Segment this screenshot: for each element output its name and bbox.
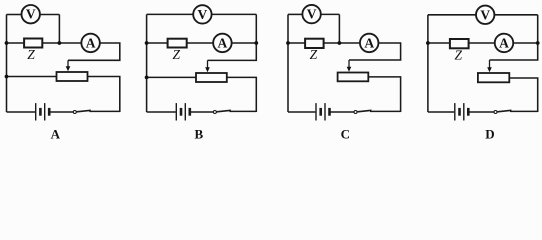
battery GB (D) (455, 103, 469, 120)
voltmeter V (C) (302, 5, 320, 23)
wire: battery to switch (D) (469, 111, 494, 113)
svg-text:A: A (499, 35, 509, 50)
wire: battery to switch (B) (191, 111, 214, 113)
wire: left vertical rail (D) (427, 15, 429, 112)
svg-text:C: C (341, 126, 350, 141)
junction node left-rheostat (B) (145, 76, 149, 80)
junction node left-row2 (A) (5, 41, 9, 45)
wire: bottom rail left segment (B) (147, 111, 176, 113)
junction node right-row2 (B) (254, 41, 258, 45)
wire: right vertical continues to ammeter-return (B) (208, 43, 257, 60)
junction node left-rheostat (A) (5, 75, 9, 79)
svg-text:A: A (364, 35, 374, 50)
resistor Z (B) (168, 39, 187, 62)
ammeter A (C) (360, 34, 379, 53)
junction node Z-ammeter (A) (58, 41, 62, 45)
wire: Z right lead (B) (187, 42, 213, 44)
wire: left vertical rail (A) (6, 15, 8, 113)
battery GB (A) (36, 103, 50, 120)
wire: bottom rail left segment (C) (288, 111, 315, 113)
battery GB (B) (176, 103, 190, 120)
wire: switch to bottom right corner (B) (229, 110, 256, 112)
junction node left-row2 (D) (426, 41, 430, 45)
wire: bottom rail left segment (D) (428, 111, 454, 113)
wire: ammeter right lead to node (D) (513, 42, 537, 44)
wire: rheostat right end to right rail down (D) (509, 78, 537, 112)
svg-text:Z: Z (27, 47, 35, 62)
wire: left rail to rheostat left end (B) (147, 76, 196, 78)
svg-text:V: V (307, 7, 317, 22)
junction node right-row2 (D) (536, 41, 540, 45)
wire: left vertical rail (B) (146, 14, 148, 112)
resistor Z (C) (305, 39, 324, 62)
ammeter A (D) (495, 34, 514, 53)
switch S (C) (354, 110, 372, 113)
wire: switch to bottom right corner (A) (89, 110, 120, 112)
wire: top rail left segment (C) (288, 13, 302, 15)
svg-text:V: V (480, 7, 490, 22)
wire: V-loop right vertical down to node (A) (58, 15, 60, 44)
rheostat R (A) slider arrow (66, 60, 71, 71)
wire: top rail right segment (A) (40, 14, 60, 16)
ammeter A (B) (213, 34, 232, 53)
wire: V-loop right vertical down to node (D) (537, 15, 539, 43)
svg-text:D: D (485, 126, 494, 141)
wire: switch to bottom right corner (C) (370, 110, 401, 112)
switch S (B) (213, 110, 231, 113)
wire: V-loop right vertical down to node (B) (255, 14, 257, 43)
svg-text:A: A (86, 35, 96, 50)
svg-text:A: A (51, 126, 61, 141)
wire: switch to bottom right corner (D) (510, 110, 538, 112)
ammeter A (A) (81, 34, 100, 53)
wire: node to resistor Z left lead (B) (147, 42, 168, 44)
junction node Z-ammeter (C) (338, 41, 342, 45)
svg-text:Z: Z (454, 48, 462, 63)
voltmeter V (B) (193, 5, 211, 23)
svg-text:A: A (218, 35, 228, 50)
switch S (A) (73, 110, 91, 113)
battery GB (C) (316, 103, 330, 120)
rheostat R (D) slider arrow (487, 60, 492, 72)
wire: rheostat right end to right rail down (C) (368, 77, 400, 112)
wire: top rail left segment (D) (428, 14, 476, 16)
resistor Z (D) (450, 39, 469, 63)
wire: right vertical continues to ammeter-return (D) (490, 43, 538, 60)
rheostat R (B) body (196, 73, 227, 82)
wire: top rail left segment (B) (147, 13, 194, 15)
wire: V-loop right vertical down to node (C) (338, 14, 340, 43)
voltmeter V (D) (476, 6, 494, 24)
wire: Z right lead (A) (42, 42, 81, 44)
wire: node to resistor Z left lead (D) (428, 42, 450, 44)
wire: left rail to rheostat left end (A) (7, 76, 57, 78)
wire: node to resistor Z left lead (C) (288, 42, 305, 44)
wire: top rail right segment (B) (212, 13, 257, 15)
wire: ammeter right lead to node (B) (232, 42, 257, 44)
rheostat R (C) slider arrow (347, 60, 352, 72)
wire: bottom rail left segment (A) (7, 111, 36, 113)
switch S (D) (494, 110, 512, 113)
junction node left-row2 (B) (145, 41, 149, 45)
rheostat R (B) slider arrow (205, 60, 210, 72)
wire: Z right lead (C) (324, 42, 360, 44)
voltmeter V (A) (22, 5, 40, 23)
svg-text:Z: Z (172, 47, 180, 62)
wire: node to resistor Z left lead (A) (7, 42, 25, 44)
wire: ammeter to right corner and down (A) (68, 43, 120, 60)
svg-text:Z: Z (310, 47, 318, 62)
wire: top rail left segment (A) (7, 14, 22, 16)
resistor Z (A) (24, 39, 42, 63)
wire: battery to switch (C) (330, 111, 354, 113)
wire: top rail right segment (C) (321, 13, 340, 15)
wire: top rail right segment (D) (494, 14, 537, 16)
wire: rheostat right end to right rail down (A) (88, 77, 120, 113)
junction node left-row2 (C) (286, 41, 290, 45)
wire: battery to switch (A) (50, 111, 73, 113)
svg-text:V: V (26, 7, 36, 22)
svg-text:B: B (194, 126, 203, 141)
wire: rheostat right end to right rail down (B) (227, 77, 256, 112)
wire: ammeter to right corner and down (C) (349, 43, 401, 60)
svg-text:V: V (198, 7, 208, 22)
rheostat R (D) body (478, 73, 509, 82)
rheostat R (A) body (57, 72, 88, 81)
wire: left vertical rail (C) (287, 14, 289, 112)
rheostat R (C) body (338, 73, 369, 82)
wire: Z right lead (D) (469, 42, 495, 44)
